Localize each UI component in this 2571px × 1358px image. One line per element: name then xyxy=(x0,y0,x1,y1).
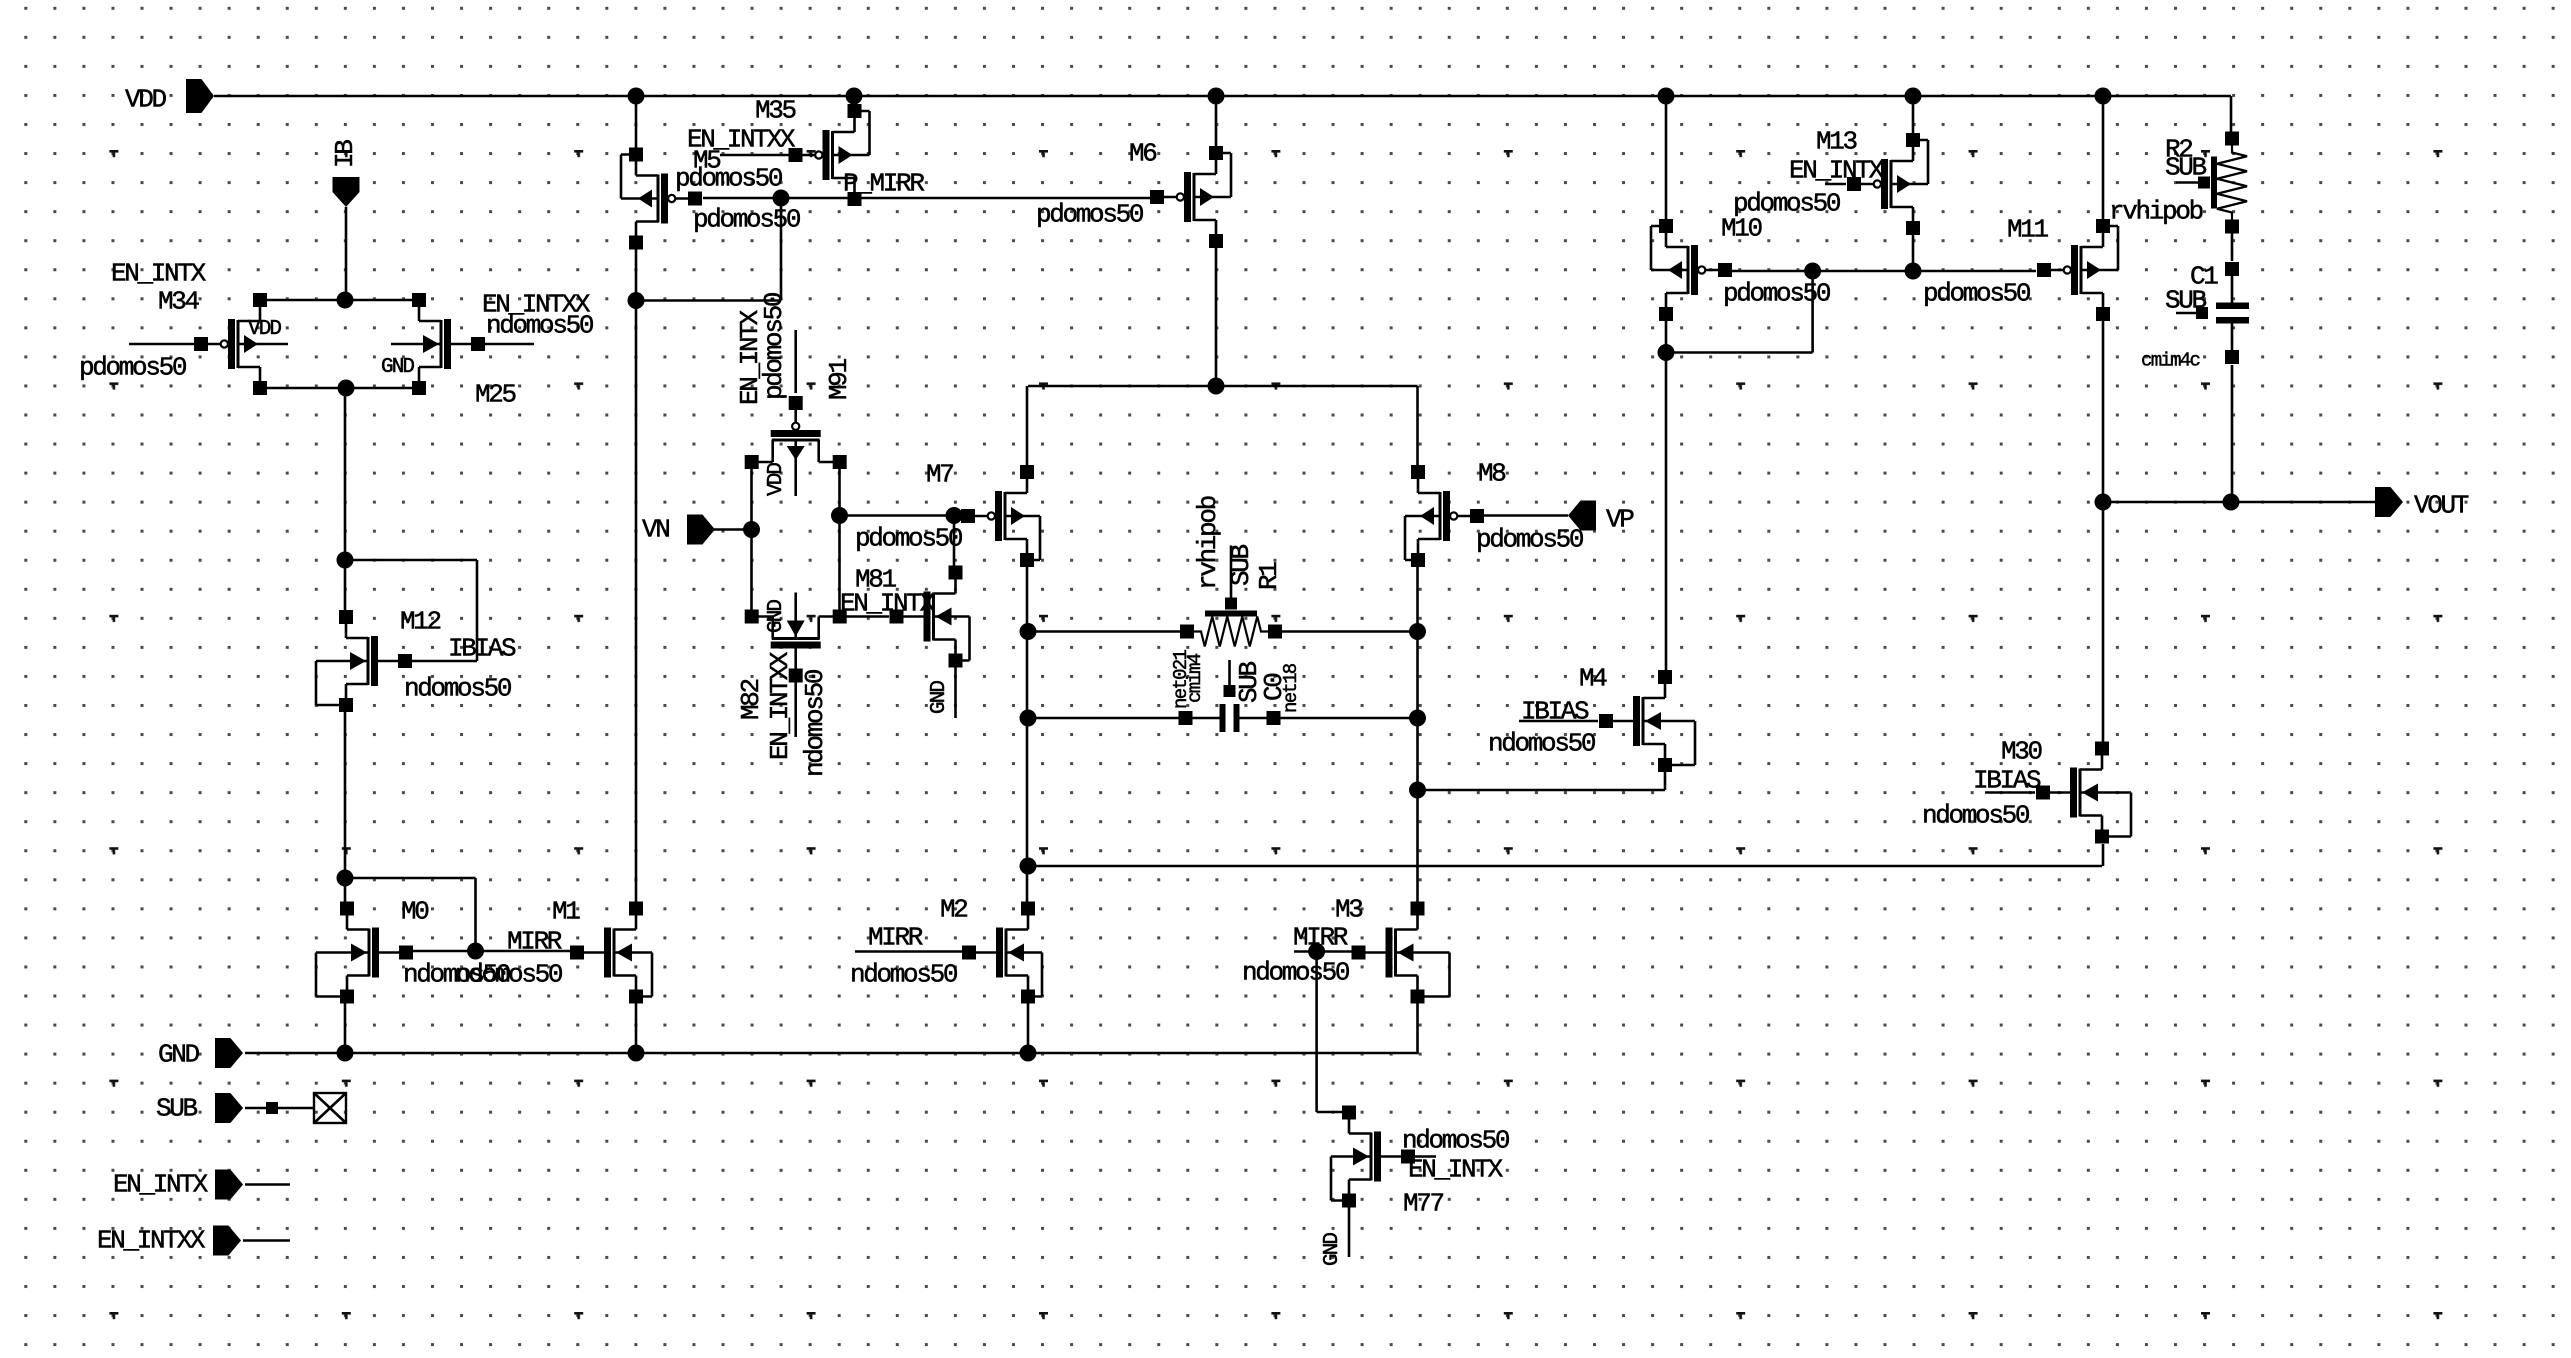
svg-text:ndomos50: ndomos50 xyxy=(404,674,511,704)
svg-text:M30: M30 xyxy=(2001,737,2042,767)
svg-text:IBIAS: IBIAS xyxy=(1973,766,2041,796)
svg-text:M13: M13 xyxy=(1816,127,1857,157)
svg-text:ndomos50: ndomos50 xyxy=(1402,1126,1509,1156)
svg-text:EN_INTXX: EN_INTXX xyxy=(765,651,795,760)
svg-text:cmim4: cmim4 xyxy=(1184,653,1206,703)
svg-text:GND: GND xyxy=(928,681,951,714)
svg-text:EN_INTX: EN_INTX xyxy=(113,1170,209,1200)
svg-text:SUB: SUB xyxy=(156,1094,198,1124)
svg-text:pdomos50: pdomos50 xyxy=(855,524,962,554)
svg-text:ndomos50: ndomos50 xyxy=(1242,958,1349,988)
svg-text:IBIAS: IBIAS xyxy=(1521,697,1589,727)
svg-text:GND: GND xyxy=(765,600,788,633)
svg-text:rvhipob: rvhipob xyxy=(1193,496,1223,590)
svg-text:ndomos50: ndomos50 xyxy=(800,670,830,777)
svg-text:pdomos50: pdomos50 xyxy=(1476,525,1583,555)
svg-text:SUB: SUB xyxy=(2165,153,2207,183)
svg-text:M6: M6 xyxy=(1129,139,1156,169)
svg-text:ndomos50: ndomos50 xyxy=(1488,729,1595,759)
svg-text:VOUT: VOUT xyxy=(2414,491,2469,521)
svg-text:P_MIRR: P_MIRR xyxy=(843,169,924,199)
svg-text:ndomos50: ndomos50 xyxy=(1922,801,2029,831)
svg-text:VDD: VDD xyxy=(765,463,788,496)
svg-text:GND: GND xyxy=(158,1040,200,1070)
svg-text:M1: M1 xyxy=(552,897,580,927)
svg-text:ndomos50: ndomos50 xyxy=(455,960,562,990)
svg-text:M34: M34 xyxy=(158,287,200,317)
svg-text:M4: M4 xyxy=(1579,664,1607,694)
svg-text:EN_INTX: EN_INTX xyxy=(1789,156,1885,186)
svg-text:cmim4c: cmim4c xyxy=(2141,350,2200,372)
svg-text:M82: M82 xyxy=(736,679,766,720)
svg-text:VN: VN xyxy=(642,515,669,545)
svg-text:M11: M11 xyxy=(2007,215,2049,245)
svg-text:M7: M7 xyxy=(926,460,953,490)
svg-text:M25: M25 xyxy=(475,380,516,410)
svg-text:GND: GND xyxy=(381,356,414,379)
svg-text:pdomos50: pdomos50 xyxy=(1923,279,2030,309)
svg-text:M0: M0 xyxy=(401,897,428,927)
svg-text:rvhipob: rvhipob xyxy=(2109,197,2203,227)
svg-text:SUB: SUB xyxy=(2165,286,2207,316)
svg-text:GND: GND xyxy=(1321,1233,1344,1266)
svg-text:M2: M2 xyxy=(940,895,967,925)
svg-text:EN_INTX: EN_INTX xyxy=(111,259,207,289)
svg-text:M12: M12 xyxy=(400,607,441,637)
svg-text:pdomos50: pdomos50 xyxy=(759,293,789,400)
svg-text:pdomos50: pdomos50 xyxy=(693,205,800,235)
svg-text:EN_INTX: EN_INTX xyxy=(1408,1155,1504,1185)
svg-text:EN_INTX: EN_INTX xyxy=(840,589,936,619)
svg-text:ndomos50: ndomos50 xyxy=(850,960,957,990)
svg-text:VDD: VDD xyxy=(248,318,281,341)
svg-text:pdomos50: pdomos50 xyxy=(675,164,782,194)
svg-text:pdomos50: pdomos50 xyxy=(1036,200,1143,230)
svg-text:MIRR: MIRR xyxy=(1293,923,1348,953)
svg-text:pdomos50: pdomos50 xyxy=(1723,279,1830,309)
svg-text:M3: M3 xyxy=(1335,895,1362,925)
svg-text:M77: M77 xyxy=(1403,1189,1444,1219)
svg-text:IBIAS: IBIAS xyxy=(448,634,516,664)
svg-text:M8: M8 xyxy=(1478,459,1505,489)
svg-text:EN_INTXX: EN_INTXX xyxy=(97,1226,206,1256)
svg-text:M91: M91 xyxy=(824,358,854,400)
svg-text:VDD: VDD xyxy=(125,85,167,115)
svg-text:VP: VP xyxy=(1606,505,1634,535)
svg-text:net18: net18 xyxy=(1280,663,1302,713)
svg-text:M35: M35 xyxy=(755,96,796,126)
svg-text:IB: IB xyxy=(330,140,360,168)
svg-text:SUB: SUB xyxy=(1226,544,1256,586)
svg-text:MIRR: MIRR xyxy=(507,927,562,957)
svg-text:M10: M10 xyxy=(1721,214,1762,244)
svg-text:ndomos50: ndomos50 xyxy=(486,311,593,341)
svg-text:pdomos50: pdomos50 xyxy=(79,353,186,383)
svg-text:MIRR: MIRR xyxy=(868,923,923,953)
svg-text:R1: R1 xyxy=(1254,562,1284,590)
